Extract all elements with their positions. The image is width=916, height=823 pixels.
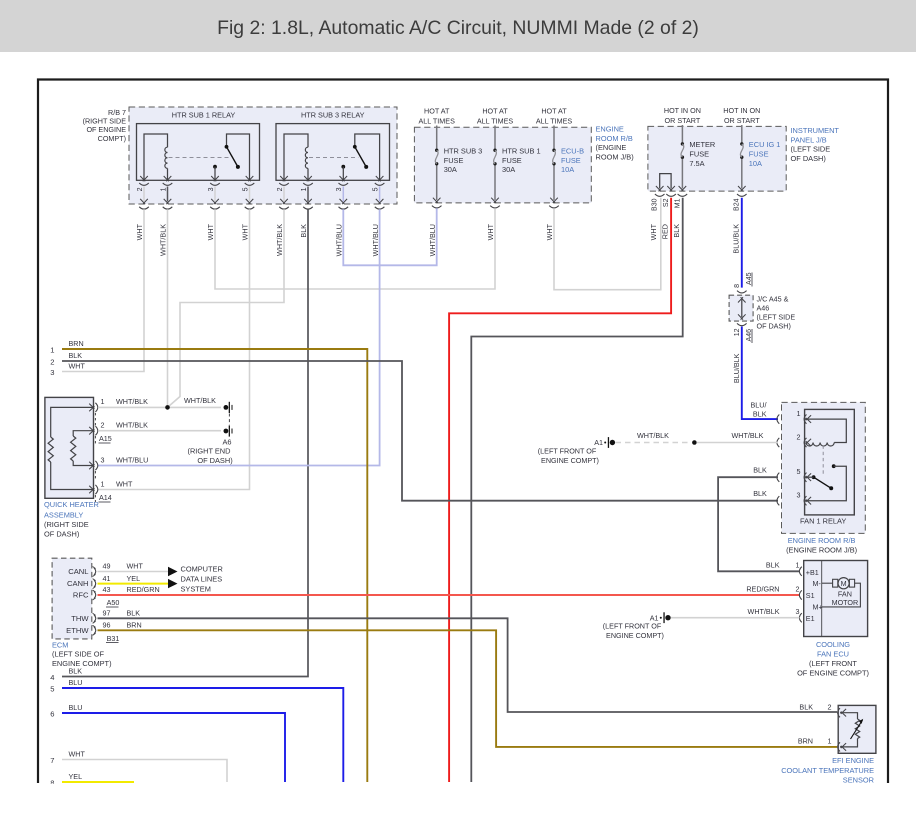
svg-text:ROOM J/B): ROOM J/B) xyxy=(596,152,634,161)
svg-text:S2: S2 xyxy=(663,198,670,207)
svg-text:2: 2 xyxy=(277,187,284,191)
svg-text:BLK: BLK xyxy=(766,561,780,570)
svg-text:1: 1 xyxy=(101,397,105,406)
svg-text:WHT/BLK: WHT/BLK xyxy=(116,421,148,430)
svg-text:(LEFT SIDE: (LEFT SIDE xyxy=(791,145,831,154)
fuse HTR SUB 3 30A xyxy=(435,149,438,152)
svg-text:12: 12 xyxy=(734,328,741,336)
wire BRN row1 xyxy=(62,349,367,782)
internal jumper B30-S2 xyxy=(660,174,671,189)
wire BLK THW to EFI sensor pin2 xyxy=(98,618,838,712)
wire WHT/BLK ground to E1 xyxy=(671,617,800,619)
svg-text:ENGINE COMPT): ENGINE COMPT) xyxy=(541,456,599,465)
fan relay coil + contacts xyxy=(805,419,847,442)
svg-text:BLU: BLU xyxy=(69,678,83,687)
svg-text:YEL: YEL xyxy=(127,574,141,583)
svg-text:OF DASH): OF DASH) xyxy=(757,322,791,331)
wire BLK relay2 pin1 to row 4 xyxy=(62,209,308,676)
svg-text:(ENGINE ROOM J/B): (ENGINE ROOM J/B) xyxy=(786,546,857,555)
svg-text:FAN 1 RELAY: FAN 1 RELAY xyxy=(800,517,846,526)
svg-text:97: 97 xyxy=(103,609,111,618)
svg-text:WHT/BLU: WHT/BLU xyxy=(335,224,344,256)
wire WHT row7 xyxy=(62,760,227,783)
component EFI coolant temp sensor box xyxy=(838,705,876,753)
svg-text:INSTRUMENT: INSTRUMENT xyxy=(791,126,840,135)
svg-text:(LEFT SIDE: (LEFT SIDE xyxy=(757,313,796,322)
svg-text:WHT: WHT xyxy=(69,750,86,759)
svg-text:B24: B24 xyxy=(734,198,741,211)
wire WHT/BLK relay2 pin2 to node A xyxy=(168,209,285,407)
fuse ECU IG 1 10A xyxy=(740,142,743,145)
wire WHT/BLK ground to fan relay pin2 xyxy=(616,442,692,444)
bottom clip xyxy=(0,784,916,823)
svg-text:J/C A45 &: J/C A45 & xyxy=(757,295,789,304)
svg-text:96: 96 xyxy=(103,621,111,630)
svg-text:HTR SUB 3: HTR SUB 3 xyxy=(444,146,483,155)
fuse HTR SUB 1 30A xyxy=(493,149,496,152)
svg-text:WHT/BLK: WHT/BLK xyxy=(748,607,780,616)
svg-text:ASSEMBLY: ASSEMBLY xyxy=(44,511,83,520)
svg-text:2: 2 xyxy=(828,702,832,711)
relay HTR SUB 3 RELAY switch xyxy=(355,134,380,180)
diagram frame xyxy=(38,80,888,784)
junction block INSTRUMENT PANEL J/B dashed box xyxy=(648,126,786,191)
sensor thermistor xyxy=(840,713,858,719)
svg-text:BLK: BLK xyxy=(127,609,141,618)
svg-text:RED: RED xyxy=(661,224,670,239)
svg-text:(LEFT SIDE OF: (LEFT SIDE OF xyxy=(52,650,105,659)
svg-text:BLU/: BLU/ xyxy=(751,401,767,410)
fan relay pins xyxy=(777,415,779,424)
relay HTR SUB 3 RELAY coil xyxy=(284,134,308,180)
svg-text:7.5A: 7.5A xyxy=(689,159,704,168)
junction block R/B 7 dashed box xyxy=(129,107,397,204)
svg-text:1: 1 xyxy=(301,187,308,191)
svg-text:8: 8 xyxy=(734,284,741,288)
svg-text:ECU-B: ECU-B xyxy=(561,146,584,155)
svg-text:3: 3 xyxy=(336,187,343,191)
component QUICK HEATER ASSEMBLY box xyxy=(45,397,94,498)
title bar xyxy=(0,0,916,52)
svg-text:THW: THW xyxy=(71,614,89,623)
svg-text:43: 43 xyxy=(103,585,111,594)
svg-text:M1: M1 xyxy=(674,198,681,208)
quick heater pins xyxy=(89,404,94,412)
svg-text:M+: M+ xyxy=(813,602,823,611)
svg-text:COOLANT TEMPERATURE: COOLANT TEMPERATURE xyxy=(781,766,874,775)
svg-text:FUSE: FUSE xyxy=(689,149,709,158)
svg-text:3: 3 xyxy=(208,187,215,191)
svg-text:5: 5 xyxy=(50,685,54,694)
relay HTR SUB 1 RELAY pins xyxy=(140,176,148,181)
svg-text:HOT AT: HOT AT xyxy=(482,107,508,116)
wire BLK row2 to FAN1 RELAY pin3 xyxy=(62,361,778,501)
svg-text:CANL: CANL xyxy=(68,567,88,576)
svg-text:OF DASH): OF DASH) xyxy=(197,456,232,465)
fuse ECU-B 10A xyxy=(552,149,555,152)
svg-text:2: 2 xyxy=(101,421,105,430)
svg-text:COOLING: COOLING xyxy=(816,640,850,649)
quick heater resistor R2 xyxy=(73,431,93,436)
svg-text:EFI ENGINE: EFI ENGINE xyxy=(832,756,874,765)
wire YEL CANH to data link xyxy=(98,583,169,585)
svg-text:(ENGINE: (ENGINE xyxy=(596,143,627,152)
svg-text:WHT: WHT xyxy=(135,223,144,240)
svg-text:FAN ECU: FAN ECU xyxy=(817,649,849,658)
svg-text:ALL TIMES: ALL TIMES xyxy=(477,117,514,126)
wire BLU row5 xyxy=(62,688,343,782)
quick heater resistor R1 xyxy=(51,407,94,437)
relay FAN 1 RELAY box xyxy=(805,409,855,515)
svg-text:FUSE: FUSE xyxy=(502,156,522,165)
wire WHT CANL to data link xyxy=(98,571,169,573)
ground A1 (fan ECU E1) xyxy=(660,617,662,619)
svg-text:A15: A15 xyxy=(99,434,112,443)
svg-text:WHT: WHT xyxy=(116,480,133,489)
svg-text:10A: 10A xyxy=(749,159,762,168)
component COOLING FAN ECU box xyxy=(804,561,868,637)
svg-text:COMPT): COMPT) xyxy=(98,134,126,143)
wire WHT/BLK quick heater pin2 to A6 xyxy=(98,430,221,432)
svg-text:BLU/BLK: BLU/BLK xyxy=(732,353,741,383)
svg-text:(LEFT FRONT OF: (LEFT FRONT OF xyxy=(538,446,597,455)
svg-text:BLK: BLK xyxy=(799,702,813,711)
relay HTR SUB 1 RELAY box xyxy=(137,124,260,181)
svg-text:ALL TIMES: ALL TIMES xyxy=(419,117,456,126)
svg-text:HOT IN ON: HOT IN ON xyxy=(664,106,701,115)
svg-text:A6: A6 xyxy=(222,437,231,446)
svg-text:B30: B30 xyxy=(652,198,659,211)
svg-text:BLK: BLK xyxy=(753,410,767,419)
svg-text:QUICK HEATER: QUICK HEATER xyxy=(44,500,99,509)
svg-text:WHT: WHT xyxy=(69,362,86,371)
svg-text:1: 1 xyxy=(50,346,54,355)
svg-text:YEL: YEL xyxy=(69,772,83,781)
svg-text:METER: METER xyxy=(689,140,715,149)
svg-text:(LEFT FRONT OF: (LEFT FRONT OF xyxy=(603,621,662,630)
svg-text:BLU/BLK: BLU/BLK xyxy=(731,224,740,254)
svg-text:HOT IN ON: HOT IN ON xyxy=(723,106,760,115)
svg-text:PANEL J/B: PANEL J/B xyxy=(791,135,827,144)
svg-text:3: 3 xyxy=(796,607,800,616)
svg-text:HTR SUB 1: HTR SUB 1 xyxy=(502,146,541,155)
svg-text:5: 5 xyxy=(372,187,379,191)
svg-text:WHT/BLK: WHT/BLK xyxy=(637,431,669,440)
svg-text:1: 1 xyxy=(160,187,167,191)
svg-text:B31: B31 xyxy=(107,634,120,643)
svg-text:SENSOR: SENSOR xyxy=(843,775,874,784)
wire WHT/BLU relay2 pin5 to quick heater pin3 xyxy=(98,209,380,465)
svg-text:ALL TIMES: ALL TIMES xyxy=(536,117,573,126)
fuse METER 7.5A xyxy=(681,142,684,145)
svg-text:BLK: BLK xyxy=(299,224,308,238)
svg-text:HTR SUB 1 RELAY: HTR SUB 1 RELAY xyxy=(172,111,236,120)
svg-text:BLK: BLK xyxy=(672,224,681,238)
svg-text:HOT AT: HOT AT xyxy=(541,107,567,116)
svg-text:49: 49 xyxy=(103,562,111,571)
svg-text:E1: E1 xyxy=(806,614,815,623)
wire RED S2 down-left-down xyxy=(449,198,671,782)
svg-text:WHT/BLK: WHT/BLK xyxy=(732,431,764,440)
wire WHT/BLK quick heater pin1 row with node A xyxy=(98,406,221,408)
wire WHT relay1 pin2 to row 3 xyxy=(62,209,144,371)
svg-text:WHT/BLU: WHT/BLU xyxy=(116,456,148,465)
svg-text:1: 1 xyxy=(796,561,800,570)
wire BLU row6 xyxy=(62,713,285,782)
svg-text:WHT: WHT xyxy=(206,223,215,240)
wire BLK fan relay pin5 to FAN ECU +B1 xyxy=(718,477,799,571)
svg-text:(LEFT FRONT: (LEFT FRONT xyxy=(809,659,857,668)
svg-text:ENGINE COMPT): ENGINE COMPT) xyxy=(606,631,664,640)
svg-text:WHT/BLU: WHT/BLU xyxy=(428,224,437,256)
svg-text:3: 3 xyxy=(101,456,105,465)
svg-text:2: 2 xyxy=(797,432,801,441)
svg-text:3: 3 xyxy=(50,368,54,377)
relay HTR SUB 1 RELAY coil xyxy=(144,134,168,180)
svg-text:WHT: WHT xyxy=(545,223,554,240)
svg-text:FUSE: FUSE xyxy=(444,156,464,165)
wire BRN ETHW to EFI sensor pin1 xyxy=(98,630,838,747)
svg-text:M-: M- xyxy=(813,579,822,588)
svg-text:BLK: BLK xyxy=(753,489,767,498)
wire YEL row8 xyxy=(62,781,134,783)
svg-text:BRN: BRN xyxy=(127,621,142,630)
svg-text:FAN: FAN xyxy=(838,589,852,598)
svg-text:RFC: RFC xyxy=(73,591,89,600)
svg-text:HOT AT: HOT AT xyxy=(424,107,450,116)
svg-text:DATA LINES: DATA LINES xyxy=(181,574,223,583)
svg-text:ENGINE: ENGINE xyxy=(596,125,624,134)
svg-text:1: 1 xyxy=(797,409,801,418)
junction block ENGINE ROOM R/B dashed box xyxy=(414,127,591,203)
svg-text:FUSE: FUSE xyxy=(561,156,581,165)
svg-text:OF DASH): OF DASH) xyxy=(791,154,826,163)
svg-text:OF DASH): OF DASH) xyxy=(44,530,79,539)
svg-text:30A: 30A xyxy=(502,165,515,174)
svg-text:S1: S1 xyxy=(806,591,815,600)
svg-text:+B1: +B1 xyxy=(806,568,819,577)
svg-text:ECM: ECM xyxy=(52,640,68,649)
wire BLU B24 to J/C A45 xyxy=(741,198,743,288)
svg-text:MOTOR: MOTOR xyxy=(832,598,859,607)
sensor pins xyxy=(838,708,840,717)
relay HTR SUB 3 RELAY box xyxy=(276,124,390,181)
svg-text:ENGINE COMPT): ENGINE COMPT) xyxy=(52,659,112,668)
svg-text:BRN: BRN xyxy=(69,339,84,348)
svg-text:OF ENGINE COMPT): OF ENGINE COMPT) xyxy=(797,669,869,678)
wire WHT ECU-B fuse to B30 xyxy=(554,198,661,290)
svg-text:BLU: BLU xyxy=(69,703,83,712)
svg-text:5: 5 xyxy=(797,467,801,476)
svg-text:ROOM R/B: ROOM R/B xyxy=(596,134,633,143)
wire RED/GRN RFC to S1 xyxy=(98,594,800,596)
wire WHT/BLK relay1 pin1 down to node A xyxy=(167,209,169,407)
ground A1 (fan relay pin2) xyxy=(604,442,606,444)
node A junction dot xyxy=(165,405,170,410)
svg-text:41: 41 xyxy=(103,574,111,583)
svg-text:FUSE: FUSE xyxy=(749,149,769,158)
svg-text:OR START: OR START xyxy=(665,116,701,125)
svg-text:RED/GRN: RED/GRN xyxy=(746,584,779,593)
svg-text:WHT/BLU: WHT/BLU xyxy=(371,224,380,256)
svg-text:1: 1 xyxy=(828,737,832,746)
svg-text:7: 7 xyxy=(50,756,54,765)
svg-text:SYSTEM: SYSTEM xyxy=(181,584,211,593)
svg-text:10A: 10A xyxy=(561,165,574,174)
relay HTR SUB 1 RELAY switch xyxy=(227,134,250,180)
svg-text:5: 5 xyxy=(242,187,249,191)
fan motor xyxy=(833,579,838,587)
svg-text:2: 2 xyxy=(796,584,800,593)
svg-text:(RIGHT SIDE: (RIGHT SIDE xyxy=(44,520,89,529)
svg-text:1: 1 xyxy=(101,480,105,489)
svg-text:(RIGHT END: (RIGHT END xyxy=(188,447,231,456)
svg-text:M: M xyxy=(841,579,847,588)
svg-text:2: 2 xyxy=(50,358,54,367)
svg-text:WHT: WHT xyxy=(649,223,658,240)
component ECM dashed box xyxy=(52,558,92,639)
svg-text:Fig 2: 1.8L, Automatic A/C Cir: Fig 2: 1.8L, Automatic A/C Circuit, NUMM… xyxy=(217,17,699,39)
wire BLK M1 down-left-down xyxy=(471,198,682,782)
svg-text:HTR SUB 3 RELAY: HTR SUB 3 RELAY xyxy=(301,111,365,120)
svg-text:4: 4 xyxy=(50,673,54,682)
svg-text:2: 2 xyxy=(137,187,144,191)
svg-text:BRN: BRN xyxy=(798,737,813,746)
svg-text:A46: A46 xyxy=(757,304,770,313)
svg-text:6: 6 xyxy=(50,710,54,719)
svg-text:WHT/BLK: WHT/BLK xyxy=(184,396,216,405)
wire WHT relay1 pin3 to HTR SUB 1 fuse xyxy=(215,208,495,289)
R/B 7 pin rows xyxy=(143,187,145,202)
svg-text:COMPUTER: COMPUTER xyxy=(181,564,223,573)
svg-text:3: 3 xyxy=(797,491,801,500)
connector A6 top xyxy=(224,405,229,410)
svg-text:30A: 30A xyxy=(444,165,457,174)
svg-text:CANH: CANH xyxy=(67,579,89,588)
svg-text:WHT/BLK: WHT/BLK xyxy=(275,224,284,256)
svg-text:A50: A50 xyxy=(107,598,120,607)
svg-text:ENGINE ROOM R/B: ENGINE ROOM R/B xyxy=(788,536,856,545)
wire WHT/BLU relay2 pin3 to HTR SUB 3 fuse xyxy=(343,208,436,265)
connector A6 bottom xyxy=(224,429,229,434)
svg-text:BLK: BLK xyxy=(753,466,767,475)
svg-text:RED/GRN: RED/GRN xyxy=(127,585,160,594)
svg-text:BLK: BLK xyxy=(69,351,83,360)
svg-text:WHT: WHT xyxy=(486,223,495,240)
svg-text:ECU IG 1: ECU IG 1 xyxy=(749,140,781,149)
svg-text:WHT/BLK: WHT/BLK xyxy=(159,224,168,256)
svg-text:WHT/BLK: WHT/BLK xyxy=(116,397,148,406)
svg-text:ETHW: ETHW xyxy=(66,626,89,635)
junction block ENGINE ROOM R/B (fan relay) dashed box xyxy=(782,402,866,533)
svg-text:WHT: WHT xyxy=(241,223,250,240)
svg-text:OR START: OR START xyxy=(724,116,760,125)
relay HTR SUB 3 RELAY pins xyxy=(280,176,288,181)
svg-text:WHT: WHT xyxy=(127,562,144,571)
wire WHT relay1 pin5 to quick heater A14 xyxy=(98,209,250,489)
svg-text:A14: A14 xyxy=(99,493,112,502)
